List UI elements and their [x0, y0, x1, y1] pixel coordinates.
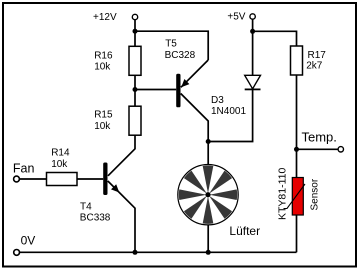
transistor T5 [176, 74, 180, 108]
svg-text:Temp.: Temp. [302, 129, 337, 144]
wire temp stub [297, 148, 338, 150]
node +12V junction [133, 29, 138, 34]
svg-text:10k: 10k [94, 62, 111, 73]
svg-text:1N4001: 1N4001 [211, 106, 246, 117]
wire R17 to sensor [296, 75, 298, 178]
wire +12V terminal drop [134, 20, 136, 31]
wire +12V rail [135, 31, 208, 60]
wire R14 to T4 base [77, 178, 103, 180]
svg-text:KTY81-110: KTY81-110 [277, 168, 289, 220]
wire +5V rail [253, 31, 297, 46]
wire Fan to R14 [20, 178, 47, 180]
wire R15 to T4 collector [108, 135, 135, 176]
resistor R16 [129, 46, 141, 75]
wire T5 collector [181, 94, 209, 142]
svg-text:T5: T5 [165, 39, 177, 50]
svg-text:R16: R16 [94, 50, 113, 61]
node fan top junction [206, 139, 211, 144]
svg-text:D3: D3 [211, 95, 224, 106]
svg-text:R17: R17 [308, 50, 327, 61]
wire node to R15 [134, 90, 136, 107]
wire fan bottom lead [207, 225, 209, 253]
resistor R14 [47, 173, 78, 186]
terminal +12V [132, 14, 137, 19]
T5 emitter arrow (PNP) [181, 79, 189, 87]
svg-text:T4: T4 [80, 201, 92, 212]
svg-text:R14: R14 [51, 148, 70, 159]
node temp junction [294, 147, 299, 152]
wire T5 base [135, 89, 176, 91]
svg-text:+5V: +5V [227, 11, 245, 22]
wire diode anode [252, 31, 254, 75]
wire T5 emitter [181, 60, 208, 87]
wire R16 to node [134, 75, 136, 89]
svg-text:Fan: Fan [13, 161, 35, 175]
svg-text:0V: 0V [21, 234, 36, 248]
svg-text:R15: R15 [94, 110, 113, 121]
wire sensor bottom [296, 215, 298, 252]
svg-text:+12V: +12V [93, 12, 117, 23]
node T4 emitter at 0V [133, 250, 138, 255]
svg-text:Sensor: Sensor [310, 178, 321, 210]
svg-text:2k7: 2k7 [306, 61, 323, 72]
node R16 R15 T5-base [133, 87, 138, 92]
wire fan top lead [207, 142, 209, 165]
svg-text:BC338: BC338 [80, 213, 111, 224]
diode D3 [245, 75, 261, 89]
resistor R15 [129, 106, 141, 135]
wire T4 emitter [108, 181, 135, 252]
wire +12V to R16 [134, 31, 136, 46]
terminal Temp [338, 147, 343, 152]
node +5V junction [250, 29, 255, 34]
terminal 0V [14, 250, 20, 256]
terminal +5V [250, 14, 255, 19]
svg-text:10k: 10k [94, 121, 111, 132]
svg-text:BC328: BC328 [165, 50, 196, 61]
T4 emitter arrow (NPN) [111, 184, 119, 192]
terminal Fan [14, 176, 20, 182]
wire diode link [208, 89, 252, 141]
wire +5V terminal drop [252, 19, 254, 31]
sensor KTY81-110 [284, 178, 306, 216]
svg-text:Lüfter: Lüfter [229, 224, 260, 238]
fan motor Luefter [178, 165, 238, 225]
svg-text:10k: 10k [51, 159, 68, 170]
node fan bottom at 0V [206, 250, 211, 255]
resistor R17 [291, 46, 303, 75]
wire 0V rail [20, 251, 297, 253]
transistor T4 [103, 163, 107, 196]
